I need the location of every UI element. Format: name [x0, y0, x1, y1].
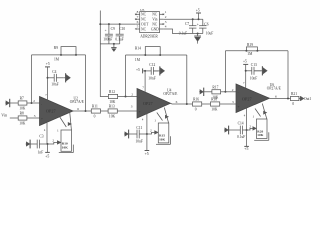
+5 supply stage2 top: [136, 68, 145, 92]
svg-text:OP27: OP27: [46, 109, 56, 114]
node: C13 tap: [245, 70, 247, 72]
svg-text:+: +: [139, 110, 141, 114]
wire: stage1 feedback right riser: [85, 55, 87, 111]
wire: U2 balance pin 1 slant stub: [60, 117, 67, 127]
node: C9 tap: [108, 23, 110, 25]
wire: R18 to U6 pin 3: [220, 103, 236, 105]
svg-text:4: 4: [165, 25, 167, 29]
+5 supply stage3 top: [243, 60, 248, 88]
potentiometer R10 10K: [57, 113, 73, 153]
U5 pin 6 OUT stub: [136, 20, 140, 24]
node: stage1 output junction: [85, 110, 87, 112]
svg-text:3: 3: [34, 114, 36, 118]
svg-text:3: 3: [165, 20, 167, 24]
U5 pin 8 stub NC: [135, 10, 140, 15]
capacitor C12 10nF: [145, 63, 158, 81]
svg-text:OP27: OP27: [143, 101, 153, 106]
capacitor C6 10uF polarized: [197, 19, 213, 35]
potentiometer R15 10K: [155, 108, 171, 145]
svg-text:1: 1: [57, 129, 59, 133]
svg-text:R19: R19: [247, 43, 253, 47]
svg-text:C6: C6: [204, 22, 208, 26]
resistor R21 0: [291, 92, 299, 106]
svg-text:+5: +5: [196, 9, 200, 13]
wire: stage3 feedback right riser: [287, 51, 289, 99]
svg-text:2: 2: [33, 99, 35, 103]
svg-text:10K: 10K: [19, 107, 26, 111]
+5 supply stage2 bottom: [145, 134, 150, 156]
svg-text:R14: R14: [135, 47, 141, 51]
node: C4 tap: [47, 77, 49, 79]
svg-text:+: +: [105, 29, 107, 33]
svg-text:OP27A/E: OP27A/E: [267, 86, 282, 90]
svg-text:C3: C3: [39, 135, 43, 139]
wire: U5 OUT to left rail: [100, 23, 136, 25]
port arrow left stage3 bottom: [224, 126, 229, 135]
svg-text:C9: C9: [111, 27, 115, 31]
resistor R12 10K: [108, 90, 117, 104]
svg-text:6: 6: [77, 107, 79, 111]
wire: OUT rail down to R12: [100, 24, 108, 96]
svg-text:10K: 10K: [19, 122, 26, 126]
svg-text:+5: +5: [244, 147, 248, 151]
svg-text:1M: 1M: [54, 58, 60, 62]
svg-text:R9: R9: [54, 46, 58, 50]
U5 pin 5 stub NC: [135, 25, 140, 30]
svg-text:NC: NC: [152, 13, 158, 17]
wire: R16 to R18: [202, 103, 211, 105]
svg-text:C4: C4: [52, 70, 56, 74]
op-amp U6 OP27A/E: [236, 84, 270, 113]
node: C12 tap: [144, 70, 146, 72]
svg-text:C12: C12: [149, 63, 155, 67]
input port stage 1: [5, 99, 10, 107]
+5 supply stage3 bottom: [244, 130, 249, 151]
wire: R17 to U6 pin 2: [221, 91, 236, 93]
svg-text:100nF: 100nF: [103, 38, 112, 42]
svg-text:2: 2: [131, 92, 133, 96]
svg-text:7: 7: [142, 85, 144, 89]
svg-text:R7: R7: [20, 97, 24, 101]
svg-text:10K: 10K: [211, 108, 218, 112]
svg-text:10nF: 10nF: [250, 76, 257, 80]
svg-text:6: 6: [137, 20, 139, 24]
svg-text:R11: R11: [92, 105, 98, 109]
node: C7 tap: [192, 18, 194, 20]
svg-text:3: 3: [232, 100, 234, 104]
U5 pin 2 Vin stub: [160, 15, 167, 19]
node: stage3 output junction: [287, 98, 289, 100]
node: stage3 inverting input: [224, 91, 226, 93]
svg-text:C13: C13: [251, 63, 257, 67]
svg-text:+5: +5: [136, 68, 140, 72]
wire: R12 to U4 pin 2: [118, 96, 137, 98]
resistor R11 0: [91, 105, 100, 119]
svg-text:NC: NC: [141, 13, 147, 17]
wire: R13 to U4 pin 3: [117, 110, 137, 112]
svg-text:-: -: [41, 102, 42, 106]
svg-text:GND: GND: [151, 27, 159, 31]
svg-text:10nF: 10nF: [136, 140, 143, 144]
wire: U6 balance pin down left: [246, 108, 248, 130]
svg-text:+5: +5: [145, 152, 149, 156]
wire: C7 C6 bottom bus: [193, 33, 203, 35]
node: stage1 inverting input: [31, 102, 33, 104]
port arrow right stage1: [63, 73, 70, 82]
ground under C7 C6: [194, 34, 201, 44]
+5 supply at U5: [196, 9, 201, 20]
op-amp U4 OP27A/E: [137, 89, 171, 119]
port arrow right stage2: [153, 66, 164, 75]
svg-text:2: 2: [150, 128, 152, 132]
svg-text:8: 8: [137, 10, 139, 14]
capacitor C7 0.1uF: [179, 19, 197, 35]
svg-text:C11: C11: [136, 126, 142, 130]
capacitor C9 100nF polarized: [103, 24, 115, 44]
svg-text:NC: NC: [152, 22, 158, 26]
wire: U6 balance pin 1 slant stub: [255, 109, 261, 117]
svg-text:OP27: OP27: [242, 96, 252, 101]
resistor R19 1M feedback stage3: [245, 43, 258, 56]
wire: stage2 feedback right riser: [186, 55, 188, 104]
svg-text:+: +: [238, 105, 240, 109]
svg-text:OP27A/E: OP27A/E: [70, 100, 85, 104]
capacitor C14 0.1uF: [229, 122, 247, 139]
wire: port to R7: [10, 102, 18, 104]
svg-text:3: 3: [131, 104, 133, 108]
svg-text:U5: U5: [140, 8, 144, 12]
svg-text:10K: 10K: [212, 96, 219, 100]
svg-text:+5: +5: [243, 60, 247, 64]
port arrow left stage3 input: [199, 88, 204, 96]
svg-text:10nF: 10nF: [148, 77, 155, 81]
U5 pin 4 GND stub: [160, 25, 167, 29]
wire: U2 balance pin down left: [46, 123, 48, 144]
svg-text:R16: R16: [193, 98, 199, 102]
ground under C9 C10: [111, 44, 116, 51]
wire: U6 output: [270, 97, 291, 99]
+5 supply stage1 top: [45, 62, 50, 100]
port arrow right stage3: [254, 66, 267, 75]
svg-text:1M: 1M: [135, 58, 141, 62]
wire: OUT rail stub up: [99, 11, 101, 25]
svg-text:4: 4: [244, 114, 246, 118]
wire: U5 Vin to +5 and caps: [163, 18, 202, 20]
svg-text:+: +: [41, 117, 43, 121]
svg-text:5: 5: [137, 25, 139, 29]
svg-text:10nF: 10nF: [51, 83, 58, 87]
svg-text:1: 1: [253, 115, 255, 119]
svg-text:0: 0: [195, 108, 197, 112]
capacitor C10 0.1uF: [115, 24, 125, 44]
node: stage1 trim junction: [47, 143, 49, 145]
svg-text:6: 6: [176, 100, 178, 104]
node: C10 tap: [119, 23, 121, 25]
svg-text:10uF: 10uF: [206, 31, 213, 35]
svg-text:+: +: [197, 23, 199, 27]
svg-text:NC: NC: [141, 27, 147, 31]
capacitor C11 10nF: [129, 126, 147, 143]
svg-text:6: 6: [275, 95, 277, 99]
svg-text:C14: C14: [238, 122, 244, 126]
svg-text:10K: 10K: [109, 100, 116, 104]
resistor R14 1M feedback stage2: [135, 47, 161, 63]
wire: Vin to R8: [10, 117, 18, 119]
wire: U4 balance pin 1 slant stub: [157, 113, 163, 121]
svg-text:R8: R8: [20, 112, 24, 116]
svg-text:1: 1: [165, 10, 167, 14]
port arrow left stage1 bottom: [26, 140, 31, 149]
node: stage3 trim junction: [246, 129, 248, 131]
svg-text:-: -: [238, 91, 239, 95]
node: ground tap left: [113, 43, 115, 45]
svg-text:4: 4: [44, 128, 46, 132]
svg-text:7: 7: [45, 93, 47, 97]
resistor R8 10K: [18, 112, 27, 126]
resistor R16 0: [193, 98, 202, 112]
wire: stage3 trim junction to pot wiper: [247, 128, 253, 130]
resistor R7 10K: [18, 97, 27, 111]
wire: stage2 feedback left riser: [125, 55, 127, 97]
svg-text:2: 2: [232, 88, 234, 92]
capacitor C4 10nF: [48, 70, 64, 87]
svg-text:ADR293ER: ADR293ER: [140, 35, 158, 39]
svg-text:1M: 1M: [247, 52, 253, 56]
svg-text:Out1: Out1: [304, 97, 311, 101]
resistor R17 10K: [212, 85, 221, 99]
wire: trim junction to pot wiper: [48, 142, 58, 144]
svg-text:1nF: 1nF: [38, 151, 44, 155]
svg-text:R21: R21: [291, 92, 297, 96]
svg-text:OUT: OUT: [141, 22, 149, 26]
wire: R7 to U2 pin 2: [27, 102, 40, 104]
resistor R9 1M feedback stage1: [54, 46, 77, 61]
svg-text:+5: +5: [46, 62, 50, 66]
svg-text:0: 0: [292, 102, 294, 106]
wire: U5 GND pin to bus: [163, 29, 192, 34]
wire: U4 balance pin down left: [146, 113, 148, 135]
port arrow left stage2 bottom: [124, 130, 129, 139]
node: stage2 inverting input: [125, 96, 127, 98]
wire: U4 output: [171, 102, 193, 105]
wire: stage2 trim junction to pot wiper: [147, 132, 155, 134]
voltage reference U5 ADR293ER: [140, 8, 160, 39]
wire: U2 output: [73, 110, 91, 112]
svg-text:7: 7: [243, 81, 245, 85]
svg-text:Vin: Vin: [152, 18, 157, 22]
svg-text:C10: C10: [119, 27, 125, 31]
wire: stage1 feedback top run: [32, 54, 86, 56]
svg-text:10K: 10K: [109, 115, 116, 119]
svg-text:7: 7: [137, 15, 139, 19]
svg-text:R13: R13: [109, 105, 115, 109]
wire: R11 to R13: [101, 110, 109, 112]
wire: stage1 feedback left riser: [31, 55, 33, 103]
wire: R8 to U2 pin 3: [27, 117, 40, 119]
wire: stage3 feedback left riser: [224, 51, 226, 92]
node: OUT rail junction: [99, 23, 101, 25]
+5 supply stage1 bottom: [45, 144, 50, 159]
svg-text:10K: 10K: [257, 133, 263, 137]
node: stage2 trim junction: [146, 133, 148, 135]
wire: C9 C10 bottom bus: [100, 43, 119, 45]
capacitor C3 1nF: [30, 135, 47, 155]
svg-text:10K: 10K: [62, 145, 68, 149]
resistor R18 10K: [211, 98, 220, 112]
svg-text:-: -: [139, 95, 140, 99]
wire: stage3 feedback top run: [225, 50, 288, 52]
svg-text:0.1uF: 0.1uF: [237, 135, 245, 139]
svg-text:R17: R17: [212, 85, 218, 89]
svg-text:0: 0: [94, 115, 96, 119]
svg-text:1: 1: [154, 119, 156, 123]
svg-text:NC: NC: [141, 18, 147, 22]
wire: stage2 feedback top run: [126, 54, 187, 56]
node: ground tap right: [197, 33, 199, 35]
svg-text:2: 2: [249, 124, 251, 128]
svg-text:Vin: Vin: [1, 113, 7, 118]
U5 pin 7 stub NC: [135, 15, 140, 20]
capacitor C13 10nF: [246, 63, 262, 81]
op-amp U2 OP27A/E: [40, 97, 74, 126]
svg-text:0.1uF: 0.1uF: [115, 38, 123, 42]
svg-text:2: 2: [52, 138, 54, 142]
output port Out1: [299, 96, 311, 101]
svg-text:+5: +5: [45, 155, 49, 159]
U5 pin 1 stub NC: [160, 10, 167, 15]
svg-text:C7: C7: [185, 22, 189, 26]
resistor R13 10K: [108, 105, 117, 119]
potentiometer R20 10K: [253, 104, 269, 141]
svg-text:R12: R12: [109, 90, 115, 94]
U5 pin 3 stub NC: [160, 20, 167, 25]
svg-text:2: 2: [165, 15, 167, 19]
wire: port to R17: [204, 91, 212, 93]
svg-text:4: 4: [142, 118, 144, 122]
svg-text:OP27A/E: OP27A/E: [163, 92, 178, 96]
node: +5 tap: [198, 18, 200, 20]
svg-text:10K: 10K: [159, 138, 165, 142]
node: stage2 output junction: [186, 103, 188, 105]
